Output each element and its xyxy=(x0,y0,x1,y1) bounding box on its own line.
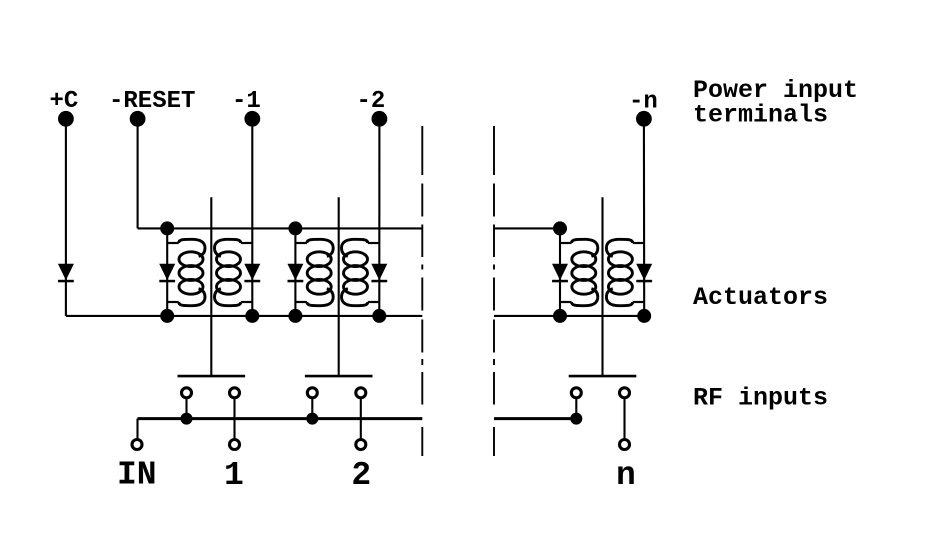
svg-text:Actuators: Actuators xyxy=(693,283,828,312)
svg-text:IN: IN xyxy=(117,457,157,494)
svg-text:+C: +C xyxy=(50,88,79,115)
svg-text:-RESET: -RESET xyxy=(109,88,195,115)
svg-text:RF inputs: RF inputs xyxy=(693,384,828,413)
svg-text:n: n xyxy=(616,457,636,494)
svg-text:1: 1 xyxy=(224,457,244,494)
svg-text:-2: -2 xyxy=(357,88,386,115)
svg-text:2: 2 xyxy=(351,457,371,494)
svg-text:-1: -1 xyxy=(232,88,261,115)
svg-text:-n: -n xyxy=(629,89,658,116)
svg-text:terminals: terminals xyxy=(693,100,828,129)
